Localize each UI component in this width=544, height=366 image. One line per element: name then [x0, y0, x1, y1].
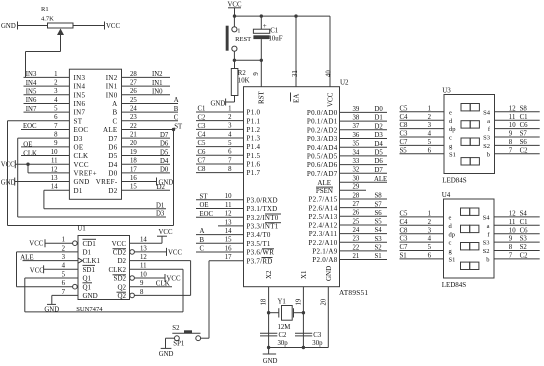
wire+label S6 from U3 pin 8 [495, 139, 540, 146]
svg-text:15: 15 [225, 237, 232, 244]
svg-text:IN1: IN1 [106, 83, 118, 91]
svg-text:11: 11 [51, 158, 58, 165]
node ST label + junction (ADC pin22 ALE) [122, 123, 183, 131]
svg-text:S5: S5 [375, 219, 383, 226]
svg-text:13: 13 [225, 219, 232, 226]
svg-text:C5: C5 [400, 211, 409, 218]
wire+label C ADC pin 23 [122, 115, 179, 122]
wire+label S1 to U4 pin 6 [400, 253, 444, 260]
resistor R2 10K [226, 60, 250, 102]
wire+label C4 to U4 pin 2 [400, 219, 444, 226]
wire+label D1 from U2 pin 38 [340, 115, 388, 122]
svg-text:C: C [174, 115, 179, 122]
svg-text:IN5: IN5 [74, 91, 86, 99]
svg-text:IN0: IN0 [106, 91, 118, 99]
power VCC at U1 pin13 + bubble [130, 248, 183, 257]
svg-text:13: 13 [140, 245, 147, 252]
wire VCC rail [233, 14, 330, 17]
svg-text:P3.5/T1: P3.5/T1 [247, 240, 271, 248]
wire+label D6 ADC pin 20 [122, 141, 171, 148]
display U3 left pin numbers [428, 105, 432, 154]
wire+label S4 from U2 pin 24 [340, 227, 388, 234]
svg-text:9: 9 [253, 72, 260, 76]
display U4 body [442, 191, 494, 289]
wire+label IN2 ADC pin 28 [122, 71, 171, 78]
svg-text:b: b [487, 151, 490, 158]
svg-text:26: 26 [130, 88, 137, 95]
wire+label C7 to U2 pin 7 [196, 158, 244, 165]
display U4 left pin numbers [428, 211, 432, 260]
U2 top pin names (rotated) [258, 90, 335, 107]
resistor R1 (potentiometer 4.7K) [18, 6, 105, 28]
svg-text:S3: S3 [483, 135, 490, 142]
svg-text:P1.7: P1.7 [247, 169, 261, 177]
svg-text:R1: R1 [41, 6, 49, 13]
svg-text:30: 30 [353, 176, 360, 183]
U1 left pin names [83, 239, 101, 300]
svg-text:P1.4: P1.4 [247, 143, 261, 151]
svg-text:C: C [200, 246, 205, 253]
svg-text:ALE: ALE [103, 126, 118, 134]
svg-text:C3: C3 [400, 236, 409, 243]
svg-text:R2: R2 [238, 70, 247, 77]
svg-text:VCC: VCC [327, 92, 335, 107]
svg-text:P0.4/AD4: P0.4/AD4 [307, 144, 338, 152]
svg-text:19: 19 [296, 298, 303, 305]
wire+label IN3 to ADC pin 1 [24, 71, 70, 78]
svg-text:GND: GND [159, 351, 174, 358]
svg-text:D3: D3 [156, 211, 165, 218]
svg-text:10uF: 10uF [269, 35, 283, 42]
wire+label IN7 to ADC pin 5 [24, 106, 70, 113]
svg-text:S4: S4 [483, 109, 491, 116]
svg-text:C5: C5 [400, 105, 409, 112]
svg-text:26: 26 [353, 210, 360, 217]
svg-text:37: 37 [353, 123, 360, 130]
wire+label S3 from U4 pin 9 [494, 236, 540, 243]
wire+label D0 from U2 pin 39 [340, 106, 388, 113]
svg-text:16: 16 [130, 175, 137, 182]
svg-text:5: 5 [62, 271, 66, 278]
svg-text:U3: U3 [442, 87, 451, 95]
svg-text:15: 15 [130, 184, 137, 191]
svg-text:IN7: IN7 [26, 106, 37, 113]
svg-text:ALE: ALE [317, 179, 331, 187]
svg-text:VCC: VCC [29, 241, 43, 248]
svg-text:12: 12 [51, 166, 58, 173]
svg-text:35: 35 [353, 141, 360, 148]
svg-text:VCC: VCC [112, 240, 127, 248]
svg-text:CD2: CD2 [113, 249, 127, 257]
svg-text:6: 6 [228, 149, 232, 156]
display U3 digit segments [461, 104, 479, 166]
wire+label C4 to U3 pin 2 [400, 114, 445, 121]
svg-text:39: 39 [353, 106, 360, 113]
svg-text:EOC: EOC [74, 126, 89, 134]
svg-text:IN2: IN2 [152, 71, 163, 78]
wire+label OE to U2 pin 11 [196, 202, 244, 209]
svg-text:3: 3 [54, 88, 58, 95]
wire+label EOC to U2 pin 12 [196, 211, 244, 218]
svg-text:VCC: VCC [30, 267, 44, 274]
wire+label S5 to U3 pin 6 [400, 147, 445, 154]
svg-text:P0.7/AD7: P0.7/AD7 [307, 170, 338, 178]
svg-text:Q1: Q1 [83, 283, 92, 291]
svg-text:P2.4/A12: P2.4/A12 [308, 222, 337, 230]
svg-text:S1: S1 [375, 253, 382, 260]
svg-text:12: 12 [225, 211, 232, 218]
svg-text:17: 17 [130, 166, 137, 173]
svg-text:3: 3 [228, 123, 232, 130]
svg-text:CLK2: CLK2 [109, 266, 127, 274]
svg-text:4.7K: 4.7K [41, 16, 54, 23]
svg-text:OE: OE [200, 202, 209, 209]
wire U2 pin17 to switch S2 [209, 261, 244, 339]
svg-text:U2: U2 [340, 79, 349, 87]
wire+label S6 from U2 pin 26 [340, 210, 388, 217]
svg-text:EOC: EOC [23, 123, 37, 130]
U2 bottom pin names (rotated) [265, 266, 333, 281]
switch S2 SP1 [166, 325, 210, 348]
svg-text:21: 21 [130, 132, 137, 139]
svg-text:SP1: SP1 [173, 341, 184, 348]
svg-text:IN6: IN6 [26, 97, 37, 104]
svg-text:ST: ST [174, 123, 183, 130]
svg-text:D6: D6 [375, 158, 384, 165]
display U3 inside pin names [449, 109, 491, 158]
svg-text:IN2: IN2 [106, 74, 118, 82]
wire+label C7 to U3 pin 5 [400, 139, 445, 146]
svg-text:P2.3/A11: P2.3/A11 [309, 230, 338, 238]
svg-text:C2: C2 [279, 332, 288, 339]
svg-text:P3.7/RD: P3.7/RD [247, 257, 273, 265]
svg-text:S4: S4 [375, 227, 383, 234]
svg-text:ALE: ALE [20, 253, 34, 261]
wire VCC to U2 pin40 [326, 16, 333, 87]
wire+label C7 to U4 pin 5 [400, 244, 444, 251]
power VCC at U1 pin10 + bubble [130, 274, 181, 283]
svg-text:8: 8 [54, 132, 58, 139]
svg-text:D2: D2 [108, 187, 117, 195]
display U4 right pin numbers [509, 211, 516, 260]
svg-text:S3: S3 [375, 236, 383, 243]
svg-text:S2: S2 [520, 244, 528, 251]
svg-text:30p: 30p [278, 340, 289, 347]
svg-text:C7: C7 [198, 158, 207, 165]
svg-text:38: 38 [353, 115, 360, 122]
ground GND to ADC pin13 [1, 178, 70, 187]
svg-text:c: c [449, 240, 452, 247]
svg-text:P1.2: P1.2 [247, 126, 261, 134]
svg-text:20: 20 [130, 140, 137, 147]
svg-text:C1: C1 [520, 219, 528, 226]
svg-text:a: a [487, 118, 490, 125]
svg-text:U4: U4 [442, 191, 451, 199]
svg-text:D0: D0 [375, 106, 384, 113]
svg-text:7: 7 [228, 157, 232, 164]
svg-text:3: 3 [62, 254, 66, 261]
svg-text:C2: C2 [520, 147, 529, 154]
svg-text:34: 34 [353, 149, 360, 156]
svg-text:D2: D2 [117, 257, 126, 265]
wire+label C2 from U3 pin 7 [495, 147, 540, 154]
svg-text:D4: D4 [160, 158, 169, 165]
node D3 label [156, 211, 165, 218]
svg-text:C2: C2 [520, 253, 529, 260]
svg-text:P3.6/WR: P3.6/WR [247, 249, 275, 257]
wire+label D4 ADC pin 18 [122, 158, 171, 165]
svg-text:GND: GND [1, 180, 16, 187]
wire+label S8 from U2 pin 28 [340, 193, 388, 200]
node ALE label + wire U1 pin3 [20, 253, 78, 261]
svg-text:8: 8 [140, 289, 144, 296]
svg-text:P3.3/INT1: P3.3/INT1 [247, 223, 279, 231]
node D1 label [156, 202, 164, 209]
U2 right pin names ALE PSEN [316, 179, 333, 195]
svg-text:27: 27 [353, 201, 360, 208]
svg-text:D6: D6 [160, 141, 169, 148]
svg-text:C6: C6 [198, 149, 207, 156]
svg-text:Q2: Q2 [117, 283, 126, 291]
crystal Y1 12M [269, 299, 304, 332]
svg-text:P2.0/A8: P2.0/A8 [312, 256, 337, 264]
wire ADC pin14 D1 loop [44, 190, 166, 208]
svg-text:S2: S2 [375, 245, 383, 252]
svg-text:P2.1/A9: P2.1/A9 [312, 248, 337, 256]
wire+label D5 from U2 pin 34 [340, 150, 388, 157]
svg-text:Y1: Y1 [278, 299, 286, 306]
svg-text:D7: D7 [108, 135, 117, 143]
svg-text:GND: GND [211, 101, 226, 108]
ground GND (R1 left) [1, 22, 18, 31]
svg-text:31: 31 [292, 70, 299, 77]
svg-text:C3: C3 [400, 131, 409, 138]
svg-text:25: 25 [130, 97, 137, 104]
svg-text:IN0: IN0 [152, 89, 163, 96]
power VCC to U1 pin4 [30, 265, 78, 274]
svg-text:1: 1 [237, 27, 240, 34]
svg-text:D1: D1 [156, 202, 164, 209]
svg-text:D7: D7 [160, 132, 169, 139]
svg-text:C4: C4 [198, 132, 207, 139]
wire+label ALE from U2 pin30 [340, 176, 388, 183]
wire U2 pin13 stub [218, 225, 244, 227]
ADC left pin names [74, 74, 97, 195]
ground GND (R2 bottom) [211, 99, 226, 108]
svg-text:C8: C8 [400, 122, 409, 129]
wire U2 pin20 GND down [320, 287, 328, 348]
svg-text:P0.0/AD0: P0.0/AD0 [307, 109, 338, 117]
svg-text:23: 23 [353, 236, 360, 243]
svg-text:GND: GND [74, 178, 90, 186]
svg-text:9: 9 [54, 140, 58, 147]
svg-text:GND: GND [1, 23, 16, 30]
wire+label C6 from U4 pin 10 [494, 227, 540, 234]
wire+label C1 to U2 pin 1 [196, 106, 244, 113]
wire+label S1 from U2 pin 21 [340, 253, 388, 260]
svg-text:27: 27 [130, 79, 137, 86]
svg-text:C3: C3 [313, 332, 322, 339]
svg-text:S7: S7 [520, 131, 528, 138]
wire+label IN4 to ADC pin 2 [24, 80, 70, 87]
ground GND at ADC pin16 [122, 178, 174, 187]
power VCC to ADC pins 11,12 [1, 160, 70, 173]
U1 left pin numbers [62, 237, 66, 296]
svg-text:C7: C7 [400, 139, 409, 146]
svg-text:PSEN: PSEN [316, 187, 333, 195]
U2 left pin numbers [225, 105, 232, 261]
svg-text:33: 33 [353, 158, 360, 165]
ADC right pin numbers 28-15 [130, 71, 137, 191]
svg-text:P1.1: P1.1 [247, 117, 261, 125]
power VCC to U1 pin1 + bubble [29, 239, 77, 247]
svg-text:LED84S: LED84S [442, 177, 467, 185]
svg-text:P0.2/AD2: P0.2/AD2 [307, 126, 338, 134]
wire+label IN5 to ADC pin 3 [24, 89, 70, 96]
svg-text:CD1: CD1 [83, 240, 97, 248]
wire+label C8 to U3 pin 3 [400, 122, 445, 129]
svg-text:S8: S8 [520, 105, 528, 112]
svg-text:P1.3: P1.3 [247, 135, 261, 143]
svg-text:32: 32 [353, 167, 360, 174]
svg-text:A: A [112, 100, 117, 108]
wire+label C3 to U4 pin 4 [400, 236, 444, 243]
svg-text:4: 4 [228, 131, 232, 138]
svg-text:29: 29 [353, 184, 360, 191]
svg-text:24: 24 [130, 106, 137, 113]
svg-text:X2: X2 [265, 270, 273, 279]
svg-text:2: 2 [54, 79, 58, 86]
svg-text:c: c [449, 135, 452, 142]
node CLK label + wire U1 pin9 [130, 279, 173, 287]
svg-text:D1: D1 [74, 187, 83, 195]
svg-text:D6: D6 [108, 143, 117, 151]
wire U1 pin5 Q1 to pin11 CLK2 loop [25, 269, 183, 312]
svg-text:VREF-: VREF- [96, 178, 118, 186]
wire+label S7 from U3 pin 9 [495, 131, 540, 138]
svg-text:28: 28 [130, 71, 137, 78]
flip-flop U1 body [76, 225, 129, 314]
wire U2 pin29 PSEN stub [340, 189, 367, 191]
svg-text:P3.1/TXD: P3.1/TXD [247, 205, 278, 213]
wire+label C5 to U3 pin 1 [400, 105, 445, 112]
svg-text:P1.5: P1.5 [247, 152, 261, 160]
svg-text:30p: 30p [312, 340, 323, 347]
wire+label D7 from U2 pin 32 [340, 167, 388, 174]
svg-text:S2: S2 [172, 325, 180, 332]
svg-text:6: 6 [54, 114, 58, 121]
wire+label B to U2 pin 15 [196, 237, 244, 244]
svg-text:VCC: VCC [74, 161, 89, 169]
svg-text:C1: C1 [520, 114, 528, 121]
svg-text:VREF+: VREF+ [74, 169, 97, 177]
svg-text:P0.3/AD3: P0.3/AD3 [307, 135, 338, 143]
svg-text:IN1: IN1 [152, 80, 163, 87]
svg-text:7: 7 [62, 289, 66, 296]
svg-text:11: 11 [140, 263, 147, 270]
svg-text:C3: C3 [198, 123, 207, 130]
power VCC (R1 right) [105, 22, 121, 31]
wire EA to U2 pin31 [292, 16, 299, 87]
wire reset junction [233, 59, 263, 62]
svg-text:GND: GND [44, 307, 59, 314]
svg-text:S3: S3 [483, 240, 490, 247]
U2 right pin names P2 [308, 196, 337, 265]
svg-text:9: 9 [140, 280, 144, 287]
display U3 right pin numbers [509, 105, 516, 154]
display U3 body [442, 87, 494, 185]
wire+label S5 from U2 pin 25 [340, 219, 388, 226]
svg-text:5: 5 [54, 106, 58, 113]
node D2 label + wire ADC pin15 [122, 184, 171, 191]
wire+label S8 from U3 pin 12 [495, 105, 540, 112]
svg-text:C1: C1 [198, 106, 206, 113]
wire+label IN0 ADC pin 26 [122, 89, 171, 96]
svg-text:18: 18 [261, 298, 268, 305]
svg-text:IN4: IN4 [26, 80, 37, 87]
wire+label C1 from U4 pin 11 [494, 219, 540, 226]
svg-text:X1: X1 [300, 270, 308, 279]
node CLK label + wire pin10 [21, 151, 69, 158]
wire+label S3 from U2 pin 23 [340, 236, 388, 243]
svg-text:B: B [200, 237, 205, 244]
svg-text:40: 40 [326, 70, 333, 77]
node EOC label + wire pin7 [21, 123, 69, 130]
power VCC at U1 pin14 [130, 229, 173, 243]
svg-text:19: 19 [130, 149, 137, 156]
svg-text:1: 1 [228, 105, 231, 112]
svg-text:P2.5/A13: P2.5/A13 [308, 213, 337, 221]
svg-text:D3: D3 [74, 135, 83, 143]
wire+label C2 from U4 pin 7 [494, 253, 540, 260]
wire+label C1 from U3 pin 11 [495, 114, 540, 121]
switch S1 REST (reset button) [226, 16, 252, 60]
svg-text:C: C [113, 117, 118, 125]
wire+label C6 to U2 pin 6 [196, 149, 244, 156]
wire+label C8 to U4 pin 3 [400, 227, 444, 234]
svg-text:11: 11 [225, 202, 232, 209]
svg-text:C6: C6 [520, 227, 529, 234]
svg-text:7: 7 [54, 123, 58, 130]
svg-text:LED84S: LED84S [442, 281, 467, 289]
wire+label S4 from U4 pin 12 [494, 211, 540, 218]
svg-text:+: + [263, 22, 267, 30]
capacitor C3 30p [295, 332, 323, 347]
U2 left pin names P3 [247, 196, 282, 265]
svg-text:12M: 12M [278, 324, 291, 331]
wire RST to U2 pin9 [253, 60, 262, 86]
svg-text:36: 36 [353, 132, 360, 139]
wire+label C5 to U4 pin 1 [400, 211, 444, 218]
svg-text:EOC: EOC [200, 211, 214, 218]
wire ADC pin8 D3 stub (to loop) [18, 137, 70, 139]
wire+label S2 from U4 pin 8 [494, 244, 540, 251]
svg-text:13: 13 [51, 175, 58, 182]
svg-text:A: A [174, 97, 179, 104]
svg-text:S7: S7 [375, 201, 383, 208]
display U4 digit segments [461, 208, 479, 270]
wire+label C3 to U2 pin 3 [196, 123, 244, 130]
svg-text:S6: S6 [520, 139, 528, 146]
svg-text:ST: ST [200, 193, 209, 200]
svg-text:S2: S2 [483, 248, 490, 255]
wire+label ST to U2 pin 10 [196, 193, 244, 200]
svg-text:dp: dp [449, 126, 456, 133]
svg-text:S6: S6 [375, 210, 383, 217]
svg-text:C7: C7 [400, 244, 409, 251]
svg-text:21: 21 [353, 253, 360, 260]
svg-text:28: 28 [353, 192, 360, 199]
